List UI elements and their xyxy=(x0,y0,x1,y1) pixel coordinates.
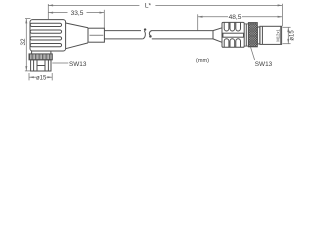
svg-text:SW13: SW13 xyxy=(255,61,273,68)
svg-text:SW13: SW13 xyxy=(69,61,87,68)
svg-text:ø15: ø15 xyxy=(290,30,296,41)
svg-text:L*: L* xyxy=(145,3,152,10)
svg-text:ø15: ø15 xyxy=(36,75,47,81)
svg-text:(mm): (mm) xyxy=(196,58,209,64)
svg-text:48,5: 48,5 xyxy=(229,14,242,21)
svg-text:32: 32 xyxy=(20,38,27,46)
svg-text:M12x1: M12x1 xyxy=(275,29,280,42)
svg-text:33,5: 33,5 xyxy=(71,10,84,17)
